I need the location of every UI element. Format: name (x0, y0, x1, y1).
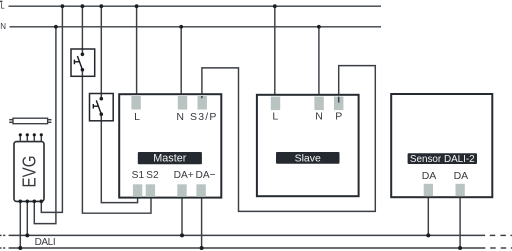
wire L to Slave L terminal (274, 6, 276, 98)
EVG bottom terminal dot 3 (33, 200, 37, 204)
Master terminal DA- (196, 184, 205, 197)
svg-text:Master: Master (153, 153, 186, 165)
wire N to Slave N terminal (318, 27, 320, 98)
Sensor DALI-2 device box (391, 94, 492, 197)
svg-text:DA: DA (454, 170, 469, 182)
ballast EVG box (14, 142, 44, 202)
svg-text:S2: S2 (146, 170, 159, 181)
wire L to push-button S2 (100, 6, 102, 99)
wire Master S3/P to Slave P (202, 66, 375, 212)
wire N line (10, 26, 382, 28)
fluorescent lamp tube (9, 118, 51, 124)
junction da2 / Master DA- (200, 246, 204, 250)
wire Master DA+ to DALI bus da1 (181, 198, 183, 236)
wire Master DA- to DALI bus da2 (201, 198, 203, 248)
junction da1 / Master DA+ (180, 233, 184, 237)
wire Sensor DA right to DALI bus da2 (459, 197, 461, 248)
wire push-button S2 to Master S1 terminal (101, 114, 137, 202)
svg-text:DA: DA (422, 170, 437, 182)
svg-text:N: N (315, 111, 323, 123)
Master terminal S2 (146, 184, 155, 197)
wire N to EVG pin3 (34, 27, 56, 224)
DALI bus line da2 (0, 247, 512, 249)
svg-text:S1: S1 (132, 170, 145, 181)
wire N to Master N terminal (180, 27, 182, 98)
junction L / S1 drop (81, 4, 85, 8)
Master name plate (138, 152, 202, 165)
EVG bottom terminal dot 1 (19, 200, 23, 204)
junction L / EVG-L drop (61, 4, 65, 8)
Master terminal L (131, 96, 140, 110)
Slave device box (257, 95, 359, 196)
wire EVG pin1 to DALI bus da2 (19, 201, 21, 248)
Sensor name plate (408, 153, 477, 165)
wire push-button S1 to Master S2 terminal (82, 70, 151, 213)
wire L line (9, 5, 382, 7)
svg-text:L: L (272, 111, 278, 123)
wire stub into Slave P terminal (338, 97, 340, 103)
EVG pin 3 (33, 133, 36, 141)
EVG pin 1 (19, 133, 22, 141)
svg-text:DA−: DA− (196, 170, 216, 181)
Slave terminal P (334, 97, 343, 111)
svg-text:P: P (335, 111, 342, 123)
push-button S1 box (71, 49, 95, 76)
junction da2 / EVG pin1 (18, 246, 22, 250)
wire L to Master L terminal (136, 6, 138, 98)
junction N / Slave-N drop (317, 25, 321, 29)
junction da1 / Sensor DA left (426, 233, 430, 237)
junction da2 / Sensor DA right (458, 246, 462, 250)
svg-text:L: L (0, 2, 5, 11)
junction N / EVG-N drop (54, 25, 58, 29)
svg-text:EVG: EVG (19, 156, 39, 188)
EVG bottom terminal dot 2 (26, 200, 30, 204)
wire L to push-button S1 (81, 6, 83, 54)
svg-text:Slave: Slave (295, 153, 321, 165)
push-button S2 contacts and lever (93, 97, 103, 116)
wire stub into Master S3/P terminal (201, 96, 203, 98)
svg-text:DA+: DA+ (174, 170, 194, 181)
svg-text:DALI: DALI (35, 237, 56, 248)
EVG bottom terminal dot 4 (40, 200, 44, 204)
Master device box (119, 94, 221, 197)
EVG pin 2 (26, 133, 29, 141)
svg-text:N: N (0, 22, 6, 31)
EVG pin 4 (40, 133, 43, 141)
junction da1 / EVG pin2 (25, 233, 29, 237)
wire EVG pin2 to DALI bus da1 (26, 201, 28, 235)
push-button S2 box (90, 94, 114, 121)
Slave terminal N (314, 97, 323, 111)
Sensor terminal DA right (456, 184, 465, 196)
push-button S1 contacts and lever (74, 53, 84, 72)
junction L / S2 drop (99, 4, 103, 8)
svg-text:N: N (176, 111, 184, 123)
svg-text:Sensor DALI-2: Sensor DALI-2 (410, 154, 475, 165)
Master terminal DA+ (177, 184, 186, 197)
Master terminal S3/P (198, 96, 207, 110)
net L continuation tick (0, 0, 2, 2)
Master terminal S1 (133, 184, 142, 197)
DALI bus line da1 (0, 234, 512, 236)
svg-text:S3/P: S3/P (190, 111, 218, 123)
junction L / Master-L drop (135, 4, 139, 8)
Slave terminal L (271, 97, 280, 111)
Master terminal N (178, 96, 187, 110)
Slave name plate (276, 152, 340, 165)
junction L / Slave-L drop (273, 4, 277, 8)
wire L to EVG pin4 (41, 6, 62, 212)
wire Sensor DA left to DALI bus da1 (427, 197, 429, 235)
junction N / Master-N drop (179, 25, 183, 29)
svg-text:L: L (134, 111, 140, 123)
Sensor terminal DA left (424, 184, 433, 196)
